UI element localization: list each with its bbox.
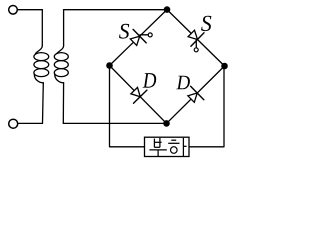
thyristor S1 (upper-left arm) <box>130 29 152 45</box>
transformer primary coil L1 <box>34 46 49 83</box>
label S2 <box>201 16 211 31</box>
transformer secondary coil L2 <box>54 46 68 83</box>
wire bridge lower-right branch <box>167 66 225 123</box>
wire secondary top vertical <box>63 10 65 46</box>
node top junction <box>164 6 171 13</box>
node left junction <box>106 62 113 69</box>
load label 부하 (drawn strokes) <box>149 138 186 157</box>
wire bridge lower-left branch <box>110 66 167 124</box>
wire bridge upper-right branch <box>167 10 225 66</box>
label S1 <box>119 24 129 39</box>
load box (부하) <box>145 137 190 156</box>
wire left node down to load <box>110 66 145 147</box>
wire secondary bottom vertical <box>62 83 64 124</box>
node right junction <box>221 63 228 70</box>
wire secondary top to bridge top node <box>64 9 167 11</box>
label D1 <box>143 73 157 88</box>
label D2 <box>176 76 190 90</box>
diode D1 (lower-left arm) <box>131 87 147 103</box>
terminal T1 (top-left input) <box>9 6 18 15</box>
wire primary top vertical <box>41 10 43 46</box>
wire primary bottom vertical <box>18 83 43 124</box>
node bottom junction <box>163 120 170 127</box>
diode D2 (lower-right arm) <box>188 86 204 102</box>
wire secondary bottom to bridge bottom node <box>63 122 166 124</box>
terminal T2 (bottom-left input) <box>9 119 18 128</box>
wire right node down to load <box>189 66 224 147</box>
wire bridge upper-left branch <box>110 10 168 66</box>
thyristor S2 (upper-right arm) <box>188 30 204 52</box>
wire T1 to primary top corner <box>17 9 42 11</box>
